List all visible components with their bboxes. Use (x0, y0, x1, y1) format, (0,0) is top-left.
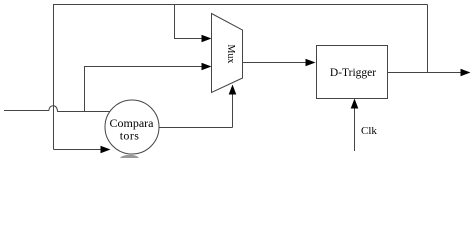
mux U1 (212, 14, 243, 93)
svg-text:tors: tors (120, 128, 140, 142)
wire: branch from top to mux input 1 (175, 5, 203, 39)
arrowhead output right (461, 69, 471, 77)
wire: D-Trigger output (388, 72, 462, 74)
svg-text:Mux: Mux (225, 44, 236, 63)
arrowhead into mux input 1 (202, 35, 212, 43)
comparators U3 (105, 100, 159, 154)
arrowhead into comparators (101, 146, 111, 154)
wire: comparators output horizontal (159, 127, 233, 129)
wire: branch up to mux input 2 (85, 67, 203, 112)
arrowhead into mux input 2 (202, 63, 212, 71)
arrowhead into mux bottom (229, 85, 237, 95)
wire: input signal with hop (4, 106, 110, 112)
wire: comparators output vertical up to mux (232, 93, 234, 128)
svg-text:D-Trigger: D-Trigger (330, 67, 376, 79)
wire: feedback bottom into comparators (54, 149, 103, 151)
D-Trigger U2 (317, 46, 388, 99)
wire: feedback top horizontal (53, 4, 428, 6)
arrowhead into D-Trigger (306, 59, 316, 67)
shadow blob bottom (120, 155, 140, 165)
wire: mux output to D-Trigger (243, 62, 307, 64)
svg-text:Clk: Clk (361, 125, 377, 137)
arrowhead clk up (351, 99, 359, 109)
wire: clk input (354, 108, 356, 152)
wire: feedback left vertical (53, 5, 55, 150)
wire: feedback right vertical (427, 5, 429, 73)
